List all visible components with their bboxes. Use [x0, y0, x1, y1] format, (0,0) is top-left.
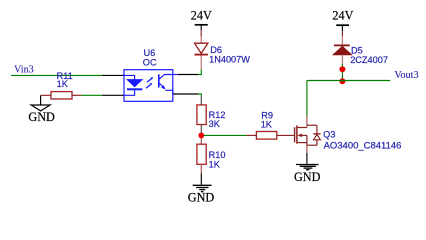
- transistor Q3 gate bar: [294, 127, 296, 142]
- junction dot mid column: [198, 133, 204, 139]
- wire Vout3 horizontal green: [307, 80, 390, 82]
- wire Vin3 horizontal green: [11, 74, 102, 76]
- junction dot upper on D5 column: [339, 66, 345, 72]
- svg-text:OC: OC: [143, 57, 157, 67]
- wire R9 right lead to Q3 gate: [277, 134, 294, 136]
- ground GND triangle left: [31, 105, 50, 111]
- svg-text:GND: GND: [28, 110, 55, 124]
- wire 24V black stub right: [341, 25, 343, 31]
- transistor U6 collector: [160, 75, 173, 79]
- wire green corner bottom right: [198, 94, 201, 96]
- transistor Q3 drain horizontal: [297, 127, 307, 129]
- wire D6 anode pin pink: [200, 37, 202, 44]
- ground earth symbol under R10: [193, 185, 212, 191]
- svg-text:1K: 1K: [261, 120, 273, 130]
- wire R11 left lead: [41, 94, 51, 96]
- svg-text:3K: 3K: [209, 119, 221, 129]
- transistor U6 emitter arrowhead: [161, 85, 166, 90]
- svg-text:AO3400_C841146: AO3400_C841146: [324, 140, 402, 150]
- wire U6 LED cathode inside: [124, 90, 135, 95]
- ground earth symbol under Q3: [296, 165, 319, 170]
- wire green corner top right: [198, 70, 201, 75]
- wire 24V to D5: [341, 31, 343, 36]
- wire green D5 column: [341, 64, 343, 81]
- svg-text:1K: 1K: [57, 79, 69, 89]
- wire 24V black stub: [200, 25, 202, 31]
- svg-text:GND: GND: [188, 190, 215, 204]
- wire gray lead to R12: [200, 96, 202, 105]
- transistor Q3 drain pin up: [306, 116, 308, 128]
- wire R12 bottom gray lead: [200, 125, 202, 133]
- transistor Q3 body arrowhead: [297, 134, 302, 138]
- diode Q3 body diode top connect: [316, 125, 318, 133]
- power 24V bar left: [195, 24, 208, 26]
- power 24V bar right: [336, 24, 349, 26]
- transistor U6 photo base bar: [158, 74, 160, 87]
- transistor Q3 source-left horizontal: [297, 142, 307, 144]
- wire green to U6 pin2: [81, 94, 102, 96]
- diode Q3 body diode bottom connect: [316, 140, 318, 145]
- wire R11 right lead dark red: [72, 94, 81, 96]
- wire Q3 source to GND black: [306, 153, 308, 164]
- svg-text:1N4007W: 1N4007W: [209, 54, 250, 64]
- transistor Q3 drain right stub to body diode: [307, 124, 317, 126]
- U6 photo arrow 1 shaft: [147, 79, 151, 82]
- svg-text:Vout3: Vout3: [394, 70, 418, 81]
- wire U6 pin4 black top right: [178, 74, 198, 76]
- wire D5 cathode pin pink: [341, 36, 343, 44]
- U6 photo arrow 2 shaft: [146, 85, 150, 88]
- diode U6 LED triangle: [127, 80, 142, 87]
- wire R10 to GND black: [200, 174, 202, 185]
- wire U6 pin2 black segment: [102, 94, 124, 96]
- diode Q3 body diode cathode bar: [313, 133, 320, 135]
- diode D5 filled triangle: [333, 46, 352, 55]
- svg-text:24V: 24V: [332, 9, 353, 23]
- transistor Q3 body lead: [300, 134, 307, 136]
- wire Vout3 corner down to Q3 drain: [306, 81, 308, 116]
- svg-text:R10: R10: [209, 150, 226, 160]
- transistor U6 emitter to box edge: [166, 90, 173, 94]
- wire D5 anode lead pink: [341, 55, 343, 64]
- op-amp U6 optocoupler box: [124, 70, 173, 102]
- transistor Q3 source pin pink: [306, 146, 308, 153]
- transistor Q3 source vertical: [306, 135, 308, 145]
- resistor R10 body: [197, 144, 206, 164]
- svg-text:24V: 24V: [191, 8, 212, 22]
- transistor U6 emitter: [160, 83, 165, 87]
- svg-text:2CZ4007: 2CZ4007: [350, 55, 388, 65]
- svg-text:1K: 1K: [209, 160, 221, 170]
- resistor R12 body: [197, 105, 206, 125]
- wire R10 bottom lead: [200, 164, 202, 173]
- svg-text:Vin3: Vin3: [14, 65, 34, 76]
- junction dot on Vout3 wire: [339, 78, 345, 84]
- transistor Q3 channel bar: [296, 125, 298, 143]
- wire 24V to D6: [200, 30, 202, 36]
- resistor R9 body: [256, 132, 276, 140]
- U6 photo arrow 2 head: [149, 83, 152, 86]
- diode U6 LED cathode bar: [127, 88, 142, 90]
- diode D6 cathode bar: [195, 54, 208, 56]
- wire R11 to GND vertical: [40, 95, 42, 105]
- diode D5 cathode bar: [334, 44, 350, 46]
- svg-text:Q3: Q3: [323, 130, 335, 140]
- wire green junction to R9: [204, 134, 246, 136]
- svg-text:GND: GND: [294, 170, 321, 184]
- U6 photo arrow 1 head: [150, 77, 153, 80]
- diode Q3 body diode triangle: [314, 135, 321, 140]
- transistor Q3 source right stub: [307, 144, 317, 146]
- wire U6 LED anode inside: [124, 75, 135, 79]
- wire R10 top lead: [200, 138, 202, 144]
- wire U6 pin3 black bottom right: [173, 93, 198, 95]
- wire D6 cathode lead pink: [200, 56, 202, 70]
- svg-text:U6: U6: [144, 48, 156, 58]
- wire R9 left lead dark red: [246, 134, 256, 136]
- resistor R11 body: [51, 92, 72, 99]
- diode D6 triangle: [195, 43, 208, 53]
- wire U6 pin4 blue stub: [173, 74, 178, 76]
- wire U6 pin1 black segment: [102, 74, 124, 76]
